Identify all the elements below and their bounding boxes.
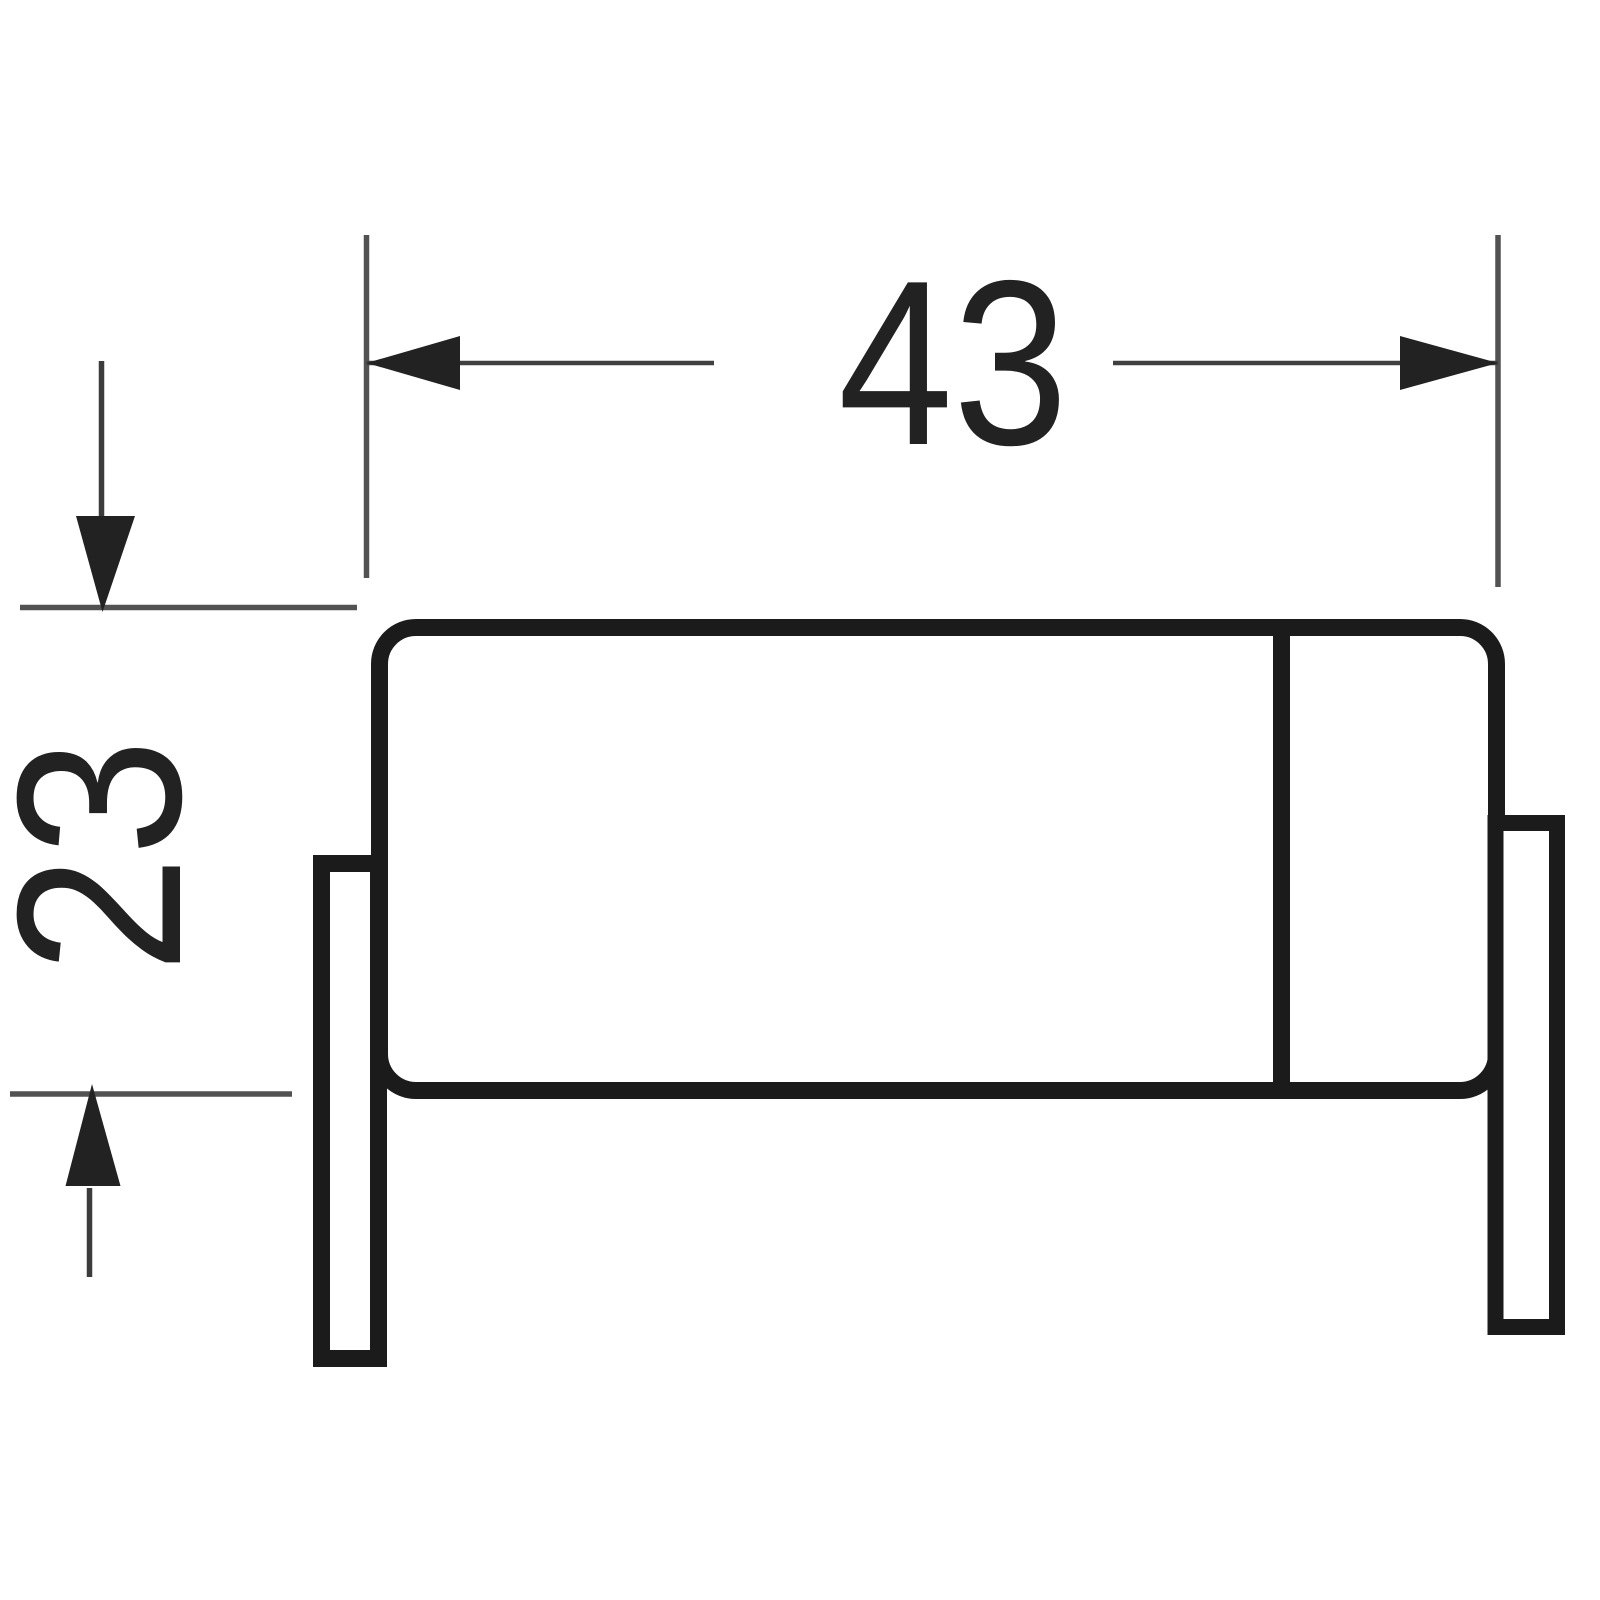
arrowhead left of width dimension <box>367 336 461 390</box>
wire: dimension line right segment <box>1113 361 1498 366</box>
svg-text:43: 43 <box>838 232 1068 494</box>
battery body outline <box>380 628 1497 1091</box>
wire: up arrow shaft of height dimension <box>87 1188 93 1277</box>
arrowhead down of height dimension <box>76 516 135 612</box>
wire: top extension line of height dimension <box>20 605 357 611</box>
wire: right extension line of width dimension <box>1495 235 1501 587</box>
arrowhead up of height dimension <box>66 1084 121 1186</box>
wire: down arrow shaft of height dimension <box>99 361 105 540</box>
arrowhead right of width dimension <box>1400 336 1498 390</box>
wire: left extension line of width dimension <box>364 235 370 578</box>
internal divider line (cell cap separation) <box>1273 619 1290 1099</box>
wire: dimension line left segment <box>367 361 715 366</box>
wire: bottom extension line of height dimension <box>10 1091 292 1097</box>
left terminal tab <box>322 864 379 1359</box>
svg-text:23: 23 <box>0 739 230 973</box>
right terminal tab <box>1496 823 1558 1327</box>
